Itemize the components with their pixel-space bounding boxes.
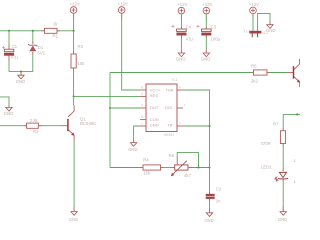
svg-text:RES: RES xyxy=(150,93,159,98)
wire OUT node down xyxy=(109,108,111,168)
ground GND (C1/D1) xyxy=(16,75,26,84)
wire C1/D1 ground bus xyxy=(9,71,33,73)
svg-text:4: 4 xyxy=(141,92,143,96)
IC IC1 NE555 body xyxy=(146,78,178,137)
svg-text:GND: GND xyxy=(69,217,79,222)
node junction emitter xyxy=(296,113,298,115)
svg-text:IC1: IC1 xyxy=(173,78,178,82)
pin 6 THR stub xyxy=(177,89,183,91)
wire R2 to Q1 base xyxy=(38,125,62,127)
node junction ground bus xyxy=(20,71,22,73)
capacitor C4 xyxy=(172,24,194,41)
svg-text:GND: GND xyxy=(204,218,214,223)
svg-text:C4: C4 xyxy=(186,24,192,29)
supply +12V (rail) xyxy=(70,1,80,19)
wire Q2 emitter net to R7 xyxy=(283,113,300,115)
wire C1 bottom lead xyxy=(8,59,10,72)
svg-text:GND: GND xyxy=(176,56,186,61)
svg-text:GND: GND xyxy=(4,111,14,116)
node junction TR/THR xyxy=(208,125,210,127)
svg-text:DIS: DIS xyxy=(165,105,172,110)
svg-text:+12V: +12V xyxy=(177,2,187,7)
wire VCC supply to pin xyxy=(122,13,140,90)
ground GND (C3) xyxy=(201,53,211,61)
pin 5 CON stub xyxy=(140,119,146,121)
wire R5 to C2 node xyxy=(188,167,210,169)
resistor R7 xyxy=(261,121,286,146)
wire red pin leads overdraw xyxy=(9,21,283,212)
svg-text:L: L xyxy=(294,158,297,163)
svg-text:7: 7 xyxy=(184,104,186,108)
svg-text:4k7: 4k7 xyxy=(184,173,192,178)
supply +12V (C3) xyxy=(202,2,212,20)
svg-text:3.3k: 3.3k xyxy=(30,118,39,123)
svg-text:+12V: +12V xyxy=(202,2,212,7)
wire top rail right segment xyxy=(57,30,74,32)
svg-text:THR: THR xyxy=(165,88,173,93)
wire X1-2 to GND loop xyxy=(258,13,270,31)
svg-text:GND: GND xyxy=(201,56,211,61)
svg-text:1n: 1n xyxy=(216,199,221,204)
resistor R3 xyxy=(71,44,85,68)
wire THR pin to vertical xyxy=(183,90,210,126)
supply +12V (C4) xyxy=(177,2,187,20)
svg-text:GND: GND xyxy=(150,123,159,128)
svg-text:1k: 1k xyxy=(53,22,58,27)
wire to GND xyxy=(20,72,22,75)
wire OUT to R6 xyxy=(110,72,254,74)
wire R4 to R5 xyxy=(161,167,175,169)
ground GND (Q1 emitter) xyxy=(69,212,79,222)
svg-text:15k: 15k xyxy=(143,171,151,176)
zener diode D1 xyxy=(28,44,46,55)
transistor Q1 xyxy=(62,106,96,141)
wire supply to rail xyxy=(73,13,75,31)
potentiometer R5 xyxy=(169,153,192,178)
wire C2 to GND xyxy=(209,199,211,212)
node junction C1 tap xyxy=(8,30,10,32)
resistor R2 xyxy=(27,118,40,134)
node junction D1 tap xyxy=(32,30,34,32)
svg-text:L: L xyxy=(294,179,297,184)
wire Q1 emitter to GND xyxy=(73,141,75,212)
svg-text:R2: R2 xyxy=(33,129,39,134)
capacitor C3 xyxy=(196,24,220,41)
svg-text:+12V: +12V xyxy=(249,2,259,7)
svg-text:R1: R1 xyxy=(53,34,59,39)
svg-text:R4: R4 xyxy=(143,157,149,162)
svg-text:R5: R5 xyxy=(169,153,175,158)
wire R3 to node xyxy=(73,68,75,96)
supply +12V (X1) xyxy=(249,2,259,20)
pin 4 RES stub xyxy=(140,95,146,97)
wire node to Q1 collector xyxy=(73,96,75,105)
svg-text:2k2: 2k2 xyxy=(251,78,259,83)
svg-text:5V1: 5V1 xyxy=(38,50,46,55)
wire TR node to timing node xyxy=(209,126,211,168)
svg-text:TR: TR xyxy=(167,123,172,128)
wire C4 to GND xyxy=(180,36,182,53)
svg-text:470R: 470R xyxy=(261,141,271,146)
ground GND (left) xyxy=(4,107,14,115)
svg-text:OUT: OUT xyxy=(150,105,159,110)
ground GND (C4) xyxy=(176,53,186,61)
pin 7 DIS stub xyxy=(177,107,183,109)
svg-text:GND: GND xyxy=(16,79,26,84)
svg-text:C2: C2 xyxy=(216,187,222,192)
wire TR pin xyxy=(183,125,210,127)
pin 3 OUT stub xyxy=(140,107,146,109)
svg-text:100µ: 100µ xyxy=(211,36,221,41)
svg-text:R6: R6 xyxy=(251,64,257,69)
svg-text:2: 2 xyxy=(179,122,181,126)
node junction supply rail xyxy=(73,30,75,32)
svg-text:R3: R3 xyxy=(78,44,84,49)
svg-text:LED1: LED1 xyxy=(261,164,272,169)
pin 2 TR stub xyxy=(177,125,183,127)
ground GND (C2) xyxy=(204,213,214,223)
connector X1 xyxy=(243,30,268,38)
svg-text:X1-1: X1-1 xyxy=(243,30,250,34)
wire D1 top lead xyxy=(32,31,34,44)
wire D1 bottom lead xyxy=(32,52,34,72)
pin 8 VCC+ stub xyxy=(140,89,146,91)
ground GND (LED1) xyxy=(278,212,288,222)
supply +12V (VCC) xyxy=(118,1,128,19)
wire R7 to LED1 xyxy=(282,144,284,172)
svg-text:C3: C3 xyxy=(211,24,217,29)
svg-text:47µ: 47µ xyxy=(186,36,194,41)
svg-text:5: 5 xyxy=(141,115,143,119)
wire node to RES pin xyxy=(74,95,140,97)
ground GND (IC pin1) xyxy=(128,143,138,152)
resistor R4 xyxy=(143,157,161,175)
pin 1 GND stub xyxy=(140,125,146,127)
wire base R2 left xyxy=(0,125,27,127)
wire to R7 xyxy=(282,114,284,130)
wire timing node to C2 xyxy=(209,168,211,195)
wire left gnd stub xyxy=(0,97,9,108)
svg-text:NE555: NE555 xyxy=(164,133,174,137)
wire supply to X1-1 xyxy=(252,14,254,32)
wire top rail left segment xyxy=(0,30,45,32)
svg-text:D1: D1 xyxy=(38,45,44,50)
resistor R1 xyxy=(45,28,58,33)
node junction R3/Q1/RES xyxy=(73,95,75,97)
resistor R6 xyxy=(251,64,267,84)
svg-text:10k: 10k xyxy=(78,61,86,66)
wire C3 to GND xyxy=(205,36,207,53)
wire OUT node up xyxy=(109,73,111,109)
wire supply to C3 xyxy=(205,14,207,29)
LED LED1 xyxy=(261,164,288,181)
svg-text:6: 6 xyxy=(179,86,181,90)
wire rail to R3 xyxy=(73,31,75,54)
wire OUT pin to node xyxy=(110,107,140,109)
svg-text:R7: R7 xyxy=(273,121,279,126)
node junction wiper xyxy=(197,166,199,168)
wire C1 top lead xyxy=(8,31,10,47)
ground GND (X1) xyxy=(266,25,276,33)
svg-text:+12V: +12V xyxy=(70,1,80,6)
wire R6 to Q2 base xyxy=(267,72,288,74)
transistor Q2 (edge-clipped) xyxy=(288,59,301,87)
wire GND pin to ground xyxy=(134,126,140,142)
svg-text:CON: CON xyxy=(150,117,159,122)
wire supply to C4 xyxy=(180,14,182,29)
svg-text:C1: C1 xyxy=(12,44,18,49)
svg-text:1: 1 xyxy=(141,122,143,126)
wire LED1 to GND xyxy=(282,179,284,212)
wire to R4 xyxy=(110,167,143,169)
svg-text:8: 8 xyxy=(141,86,143,90)
svg-text:GND: GND xyxy=(278,217,288,222)
wire R5 wiper loop xyxy=(177,153,198,168)
node junction timing xyxy=(208,166,210,168)
svg-text:BC549C: BC549C xyxy=(80,121,96,126)
svg-text:X1-2: X1-2 xyxy=(262,31,269,35)
svg-text:GND: GND xyxy=(128,147,138,152)
svg-text:47µ: 47µ xyxy=(11,55,19,60)
node junction OUT xyxy=(109,107,111,109)
svg-text:3: 3 xyxy=(141,104,143,108)
svg-text:VCC+: VCC+ xyxy=(150,88,161,93)
capacitor C1 xyxy=(2,44,18,60)
svg-text:+12V: +12V xyxy=(118,1,128,6)
capacitor C2 xyxy=(206,187,222,204)
